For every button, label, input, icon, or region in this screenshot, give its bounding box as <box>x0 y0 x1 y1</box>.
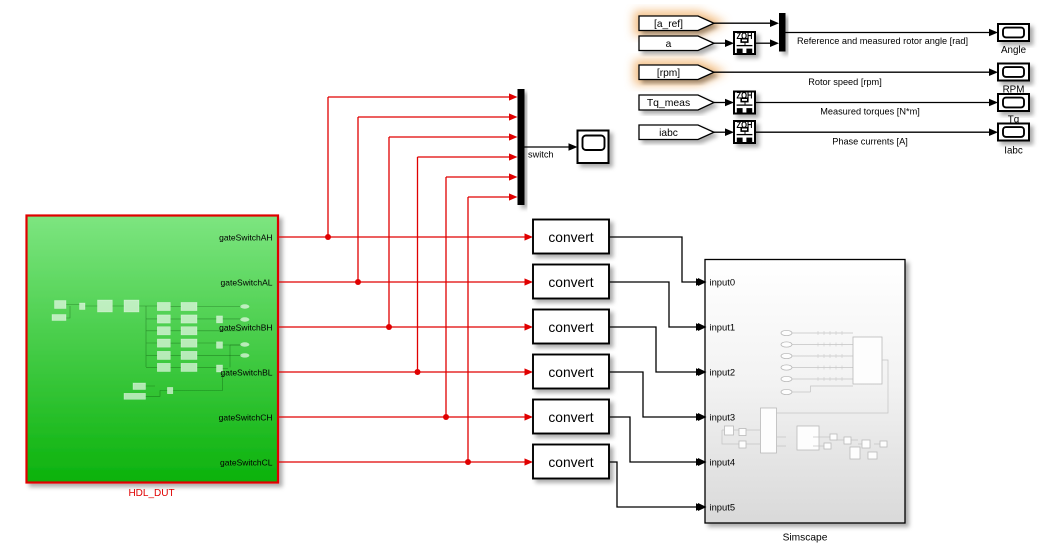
wire gateSwitchAH to convert1 (red) <box>278 233 533 240</box>
data type conversion block convert6 <box>533 445 609 479</box>
data type conversion block convert5 <box>533 400 609 434</box>
svg-text:convert: convert <box>548 230 593 245</box>
from tag Tq_meas <box>639 95 714 110</box>
branch wire gateSwitchAL to mux input 2 (red) <box>358 113 518 282</box>
svg-text:Measured torques [N*m]: Measured torques [N*m] <box>820 107 920 117</box>
wire ZOH to Tq display <box>755 99 998 107</box>
junction dot on gateSwitchCH wire <box>443 414 449 420</box>
wire convert4 to Simscape input3 <box>609 372 705 421</box>
wire gateSwitchBL to convert4 (red) <box>278 368 533 375</box>
data type conversion block convert3 <box>533 310 609 344</box>
rate transition ZOH (a signal) <box>734 31 755 54</box>
svg-text:convert: convert <box>548 410 593 425</box>
wire convert3 to Simscape input2 <box>609 327 705 376</box>
wire gateSwitchAL to convert2 (red) <box>278 278 533 285</box>
svg-text:Reference and measured rotor a: Reference and measured rotor angle [rad] <box>797 36 968 46</box>
svg-text:Simscape: Simscape <box>783 533 828 544</box>
wire gateSwitchBH to convert3 (red) <box>278 323 533 330</box>
wire ZOH to Iabc display <box>755 128 998 136</box>
svg-text:input4: input4 <box>710 456 736 467</box>
svg-text:gateSwitchAL: gateSwitchAL <box>221 277 273 287</box>
wire ZOH to mux <box>755 39 779 47</box>
wire a to rate transition <box>714 39 734 47</box>
svg-text:Rotor speed [rpm]: Rotor speed [rpm] <box>808 77 882 87</box>
rate transition ZOH (Tq_meas) <box>734 91 755 114</box>
data type conversion block convert2 <box>533 265 609 299</box>
junction dot on gateSwitchBL wire <box>415 369 421 375</box>
Simscape input port input0 <box>698 276 735 287</box>
Simscape input port input1 <box>698 321 735 332</box>
junction dot on gateSwitchAL wire <box>355 279 361 285</box>
from tag a <box>639 36 714 51</box>
svg-text:[a_ref]: [a_ref] <box>654 19 683 30</box>
Simscape input port input2 <box>698 366 735 377</box>
svg-text:a: a <box>666 39 672 50</box>
svg-text:gateSwitchCH: gateSwitchCH <box>219 412 273 422</box>
branch wire gateSwitchBL to mux input 4 (red) <box>418 153 518 372</box>
branch wire gateSwitchBH to mux input 3 (red) <box>389 133 518 327</box>
wire Tq_meas to rate transition <box>714 99 734 107</box>
from tag [a_ref] (highlighted) <box>639 16 714 31</box>
svg-text:gateSwitchBL: gateSwitchBL <box>221 367 273 377</box>
svg-text:input5: input5 <box>710 501 736 512</box>
Simscape input port input3 <box>698 411 735 422</box>
wire [rpm] to RPM display <box>714 68 998 76</box>
svg-text:input3: input3 <box>710 411 736 422</box>
svg-text:input2: input2 <box>710 366 736 377</box>
from tag [rpm] (highlighted) <box>639 65 714 80</box>
svg-text:iabc: iabc <box>659 128 678 139</box>
data type conversion block convert4 <box>533 355 609 389</box>
display Angle <box>998 24 1029 41</box>
svg-text:input1: input1 <box>710 321 736 332</box>
Simscape input port input4 <box>698 456 735 467</box>
svg-text:gateSwitchBH: gateSwitchBH <box>219 322 272 332</box>
Simscape input port input5 <box>698 501 735 512</box>
junction dot on gateSwitchCL wire <box>465 459 471 465</box>
branch wire gateSwitchAH to mux input 1 (red) <box>328 93 518 237</box>
wire convert2 to Simscape input1 <box>609 282 705 331</box>
svg-text:Iabc: Iabc <box>1004 146 1023 157</box>
svg-text:[rpm]: [rpm] <box>657 68 680 79</box>
svg-text:convert: convert <box>548 320 593 335</box>
wire [a_ref] to mux <box>714 19 779 27</box>
junction dot on gateSwitchAH wire <box>325 234 331 240</box>
wire convert1 to Simscape input0 <box>609 237 705 286</box>
display Iabc <box>998 124 1029 141</box>
junction dot on gateSwitchBH wire <box>386 324 392 330</box>
wire mux to Angle display <box>786 29 999 37</box>
display RPM <box>998 64 1029 81</box>
subsystem HDL_DUT (green block) <box>27 216 279 483</box>
svg-text:Phase currents [A]: Phase currents [A] <box>832 137 908 147</box>
wire mux to scope (signal switch) <box>525 143 578 151</box>
svg-text:convert: convert <box>548 365 593 380</box>
data type conversion block convert1 <box>533 220 609 254</box>
svg-text:input0: input0 <box>710 276 736 287</box>
wire gateSwitchCH to convert5 (red) <box>278 413 533 420</box>
mux Mux2 (2-input) <box>779 13 786 52</box>
from tag iabc <box>639 125 714 140</box>
subsystem Simscape block <box>705 260 905 524</box>
branch wire gateSwitchCH to mux input 5 (red) <box>446 173 518 417</box>
rate transition ZOH (iabc) <box>734 120 755 143</box>
svg-text:gateSwitchAH: gateSwitchAH <box>219 232 272 242</box>
wire iabc to rate transition <box>714 128 734 136</box>
wire gateSwitchCL to convert6 (red) <box>278 458 533 465</box>
svg-text:gateSwitchCL: gateSwitchCL <box>220 457 273 467</box>
svg-text:convert: convert <box>548 275 593 290</box>
svg-text:HDL_DUT: HDL_DUT <box>128 488 174 499</box>
svg-text:convert: convert <box>548 455 593 470</box>
display Tq <box>998 94 1029 111</box>
wire convert6 to Simscape input5 <box>609 462 705 511</box>
mux Mux1 (6-input, vertical bar) <box>518 89 525 205</box>
svg-text:Angle: Angle <box>1001 45 1027 56</box>
svg-text:switch: switch <box>528 150 554 160</box>
svg-text:Tq_meas: Tq_meas <box>647 98 690 109</box>
wire convert5 to Simscape input4 <box>609 417 705 466</box>
scope block (switch viewer) <box>578 131 609 164</box>
branch wire gateSwitchCL to mux input 6 (red) <box>468 193 518 462</box>
